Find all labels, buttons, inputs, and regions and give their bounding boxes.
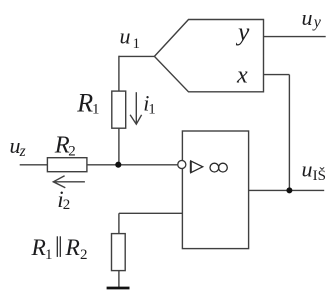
wire down to R1||R2 — [118, 213, 120, 233]
svg-text:IŠ: IŠ — [313, 167, 326, 184]
svg-text:1: 1 — [148, 102, 156, 118]
wire op-amp output — [249, 189, 325, 191]
svg-text:u: u — [302, 156, 313, 181]
svg-text:R: R — [65, 235, 80, 261]
wire y output — [264, 36, 326, 38]
svg-text:1: 1 — [133, 36, 141, 52]
wire R2 to inverting input — [87, 164, 178, 166]
svg-text:z: z — [19, 143, 26, 160]
svg-text:u: u — [120, 24, 131, 49]
svg-text:1: 1 — [45, 247, 53, 263]
resistor R1 — [112, 91, 126, 128]
op-amp triangle symbol — [191, 161, 203, 173]
wire u1 horizontal — [119, 55, 154, 57]
svg-text:y: y — [312, 14, 322, 31]
svg-text:u: u — [302, 5, 313, 30]
resistor R1||R2 — [112, 234, 126, 271]
wire input uz — [20, 164, 48, 166]
svg-text:2: 2 — [68, 143, 76, 159]
current arrow i1 — [135, 92, 137, 124]
svg-text:2: 2 — [63, 197, 71, 213]
svg-text:R: R — [76, 89, 93, 118]
resistor R2 — [47, 158, 87, 172]
svg-text:y: y — [235, 17, 250, 46]
multiplier block — [154, 20, 263, 92]
node at inverting input junction — [115, 162, 121, 168]
op-amp infinity symbol — [210, 163, 227, 172]
wire u1 down to R1 — [118, 56, 120, 91]
inverting input circle — [178, 160, 186, 168]
svg-text:R: R — [31, 235, 46, 261]
wire noninverting input — [119, 212, 182, 214]
svg-text:1: 1 — [92, 102, 100, 118]
op-amp body — [182, 131, 248, 249]
wire R1 to node — [118, 128, 120, 165]
node at output junction — [286, 187, 292, 193]
svg-text:2: 2 — [80, 247, 88, 263]
wire x feedback vertical — [288, 75, 290, 191]
wire x output horizontal — [264, 74, 290, 76]
wire R1||R2 to ground — [118, 271, 120, 288]
svg-text:x: x — [236, 63, 248, 89]
current arrow i2 — [53, 181, 85, 183]
ground — [107, 287, 130, 290]
